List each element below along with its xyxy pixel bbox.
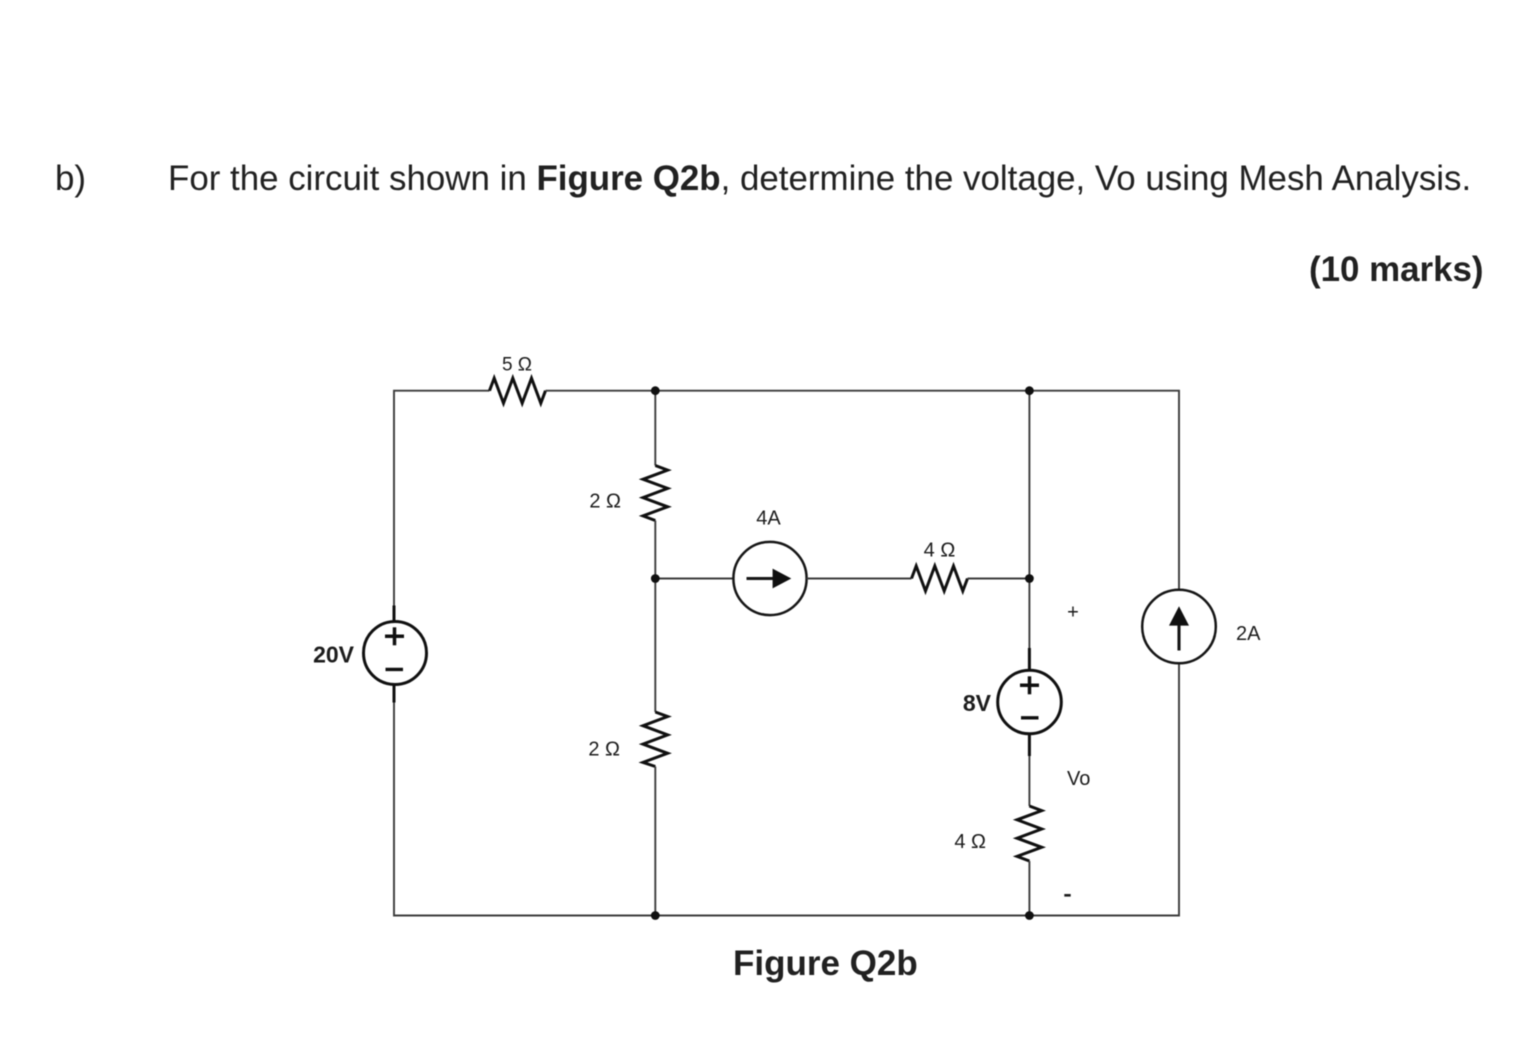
node dot mid-right — [1025, 574, 1034, 583]
resistor R 2ohm (lower middle) — [643, 712, 668, 767]
svg-text:4A: 4A — [756, 508, 781, 530]
svg-text:2 Ω: 2 Ω — [589, 491, 621, 513]
svg-text:2 Ω: 2 Ω — [588, 739, 620, 761]
node dot top-middle — [651, 386, 660, 395]
wire middle horizontal (4A to 4ohm) — [807, 578, 912, 580]
wire top (5ohm to top-right corner, down right side) — [546, 391, 1180, 590]
figure caption — [733, 946, 918, 981]
arrowhead of 2A source — [1169, 606, 1189, 625]
node dot bottom-right-inner — [1025, 911, 1034, 920]
voltage source V2 8V — [998, 648, 1062, 756]
wire left-bottom + bottom + right-bottom — [394, 663, 1179, 915]
question label b) — [55, 162, 86, 197]
node dot bottom-middle — [651, 911, 660, 920]
node dot top-right-inner — [1025, 386, 1034, 395]
arrowhead of 4A source — [773, 569, 792, 589]
voltage source V1 20V — [364, 606, 427, 703]
svg-text:Vo: Vo — [1067, 768, 1090, 790]
svg-text:5 Ω: 5 Ω — [502, 355, 532, 376]
svg-text:+: + — [1067, 602, 1079, 624]
current source I1 4A — [733, 542, 806, 615]
resistor R 2ohm (upper middle) — [643, 466, 668, 521]
wire top-left (from top-left corner to 5ohm resistor) — [394, 391, 490, 606]
question text — [168, 162, 1471, 197]
wire middle vertical mid segment — [654, 521, 656, 713]
current source I2 2A — [1142, 590, 1216, 664]
svg-text:2A: 2A — [1236, 623, 1261, 645]
wire 8V to 4ohm vertical — [1028, 756, 1030, 806]
svg-text:8V: 8V — [963, 690, 992, 716]
minus sign of Vo — [1064, 894, 1070, 897]
wire middle horizontal (node to 4A source) — [655, 578, 733, 580]
node dot mid-left — [651, 574, 660, 583]
wire middle vertical bottom segment — [654, 767, 656, 916]
resistor R 4ohm (horizontal) — [912, 566, 968, 591]
svg-text:20V: 20V — [313, 642, 355, 668]
resistor R 4ohm (vertical) — [1017, 806, 1042, 861]
wire right-middle vertical (top node down to 8V) — [1028, 391, 1030, 649]
wire middle vertical top segment — [654, 391, 656, 466]
svg-text:4 Ω: 4 Ω — [924, 540, 956, 562]
wire 4ohm vertical to bottom — [1028, 861, 1030, 916]
wire middle horizontal (4ohm to right node) — [968, 578, 1030, 580]
svg-text:4 Ω: 4 Ω — [954, 831, 986, 853]
resistor R 5ohm (top) — [490, 378, 546, 403]
marks — [1309, 253, 1484, 288]
